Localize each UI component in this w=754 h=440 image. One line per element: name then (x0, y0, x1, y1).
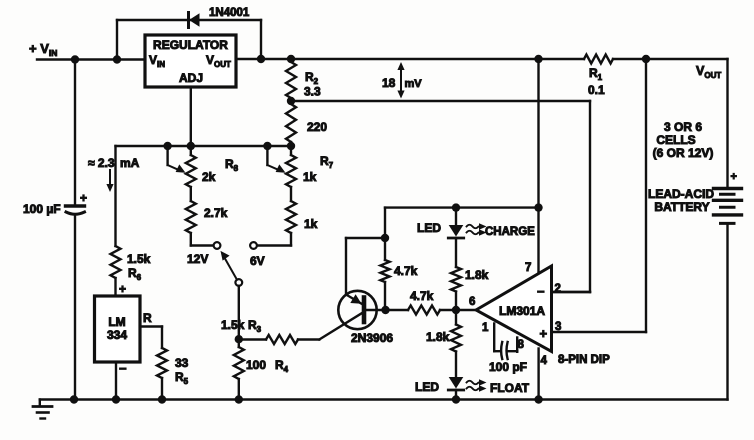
svg-text:LED: LED (417, 221, 441, 235)
svg-text:2.7k: 2.7k (204, 206, 228, 220)
svg-text:FLOAT: FLOAT (490, 381, 530, 395)
svg-text:7: 7 (525, 262, 531, 274)
svg-text:100 pF: 100 pF (489, 360, 527, 374)
svg-text:+: + (80, 191, 87, 205)
svg-text:4.7k: 4.7k (394, 264, 418, 278)
svg-text:33: 33 (175, 356, 189, 370)
svg-text:(6 OR 12V): (6 OR 12V) (653, 146, 714, 160)
svg-text:REGULATOR: REGULATOR (153, 38, 228, 52)
svg-text:mA: mA (120, 156, 140, 170)
svg-text:LED: LED (415, 380, 439, 394)
svg-text:100 µF: 100 µF (23, 202, 61, 216)
svg-text:−: − (119, 361, 127, 376)
svg-text:1: 1 (482, 322, 489, 334)
svg-text:LEAD-ACID: LEAD-ACID (648, 187, 714, 201)
svg-text:2N3906: 2N3906 (351, 331, 393, 345)
svg-text:0.1: 0.1 (588, 83, 605, 97)
svg-text:CHARGE: CHARGE (485, 226, 535, 238)
svg-text:12V: 12V (187, 252, 208, 266)
svg-text:4: 4 (541, 355, 548, 367)
svg-text:+: + (731, 171, 737, 183)
svg-text:LM301A: LM301A (499, 304, 545, 318)
svg-text:220: 220 (307, 120, 327, 134)
svg-text:CELLS: CELLS (656, 133, 695, 147)
svg-text:+: + (540, 326, 548, 341)
svg-text:1.8k: 1.8k (426, 330, 450, 344)
svg-text:2k: 2k (202, 170, 216, 184)
svg-text:100: 100 (246, 358, 266, 372)
svg-text:1.5k: 1.5k (127, 252, 151, 266)
svg-text:LM: LM (108, 315, 125, 329)
svg-text:6V: 6V (250, 254, 265, 268)
svg-text:BATTERY: BATTERY (654, 200, 709, 214)
svg-text:6: 6 (469, 296, 475, 308)
svg-text:mV: mV (405, 78, 423, 90)
svg-text:8-PIN DIP: 8-PIN DIP (558, 354, 610, 366)
svg-text:334: 334 (107, 328, 127, 342)
svg-text:≈ 2.3: ≈ 2.3 (88, 156, 115, 170)
svg-text:R: R (143, 311, 152, 325)
svg-text:8: 8 (518, 339, 525, 351)
svg-text:3 OR 6: 3 OR 6 (664, 120, 702, 134)
svg-text:1N4001: 1N4001 (209, 7, 250, 19)
svg-text:1k: 1k (303, 170, 317, 184)
svg-text:ADJ: ADJ (179, 71, 203, 85)
svg-text:−: − (537, 284, 545, 299)
svg-text:1.5k: 1.5k (221, 318, 245, 332)
svg-text:1k: 1k (304, 217, 318, 231)
svg-text:4.7k: 4.7k (410, 289, 434, 303)
svg-text:1.8k: 1.8k (465, 268, 489, 282)
svg-text:3.3: 3.3 (304, 85, 321, 99)
svg-text:18: 18 (382, 76, 396, 90)
svg-text:+: + (119, 282, 126, 296)
